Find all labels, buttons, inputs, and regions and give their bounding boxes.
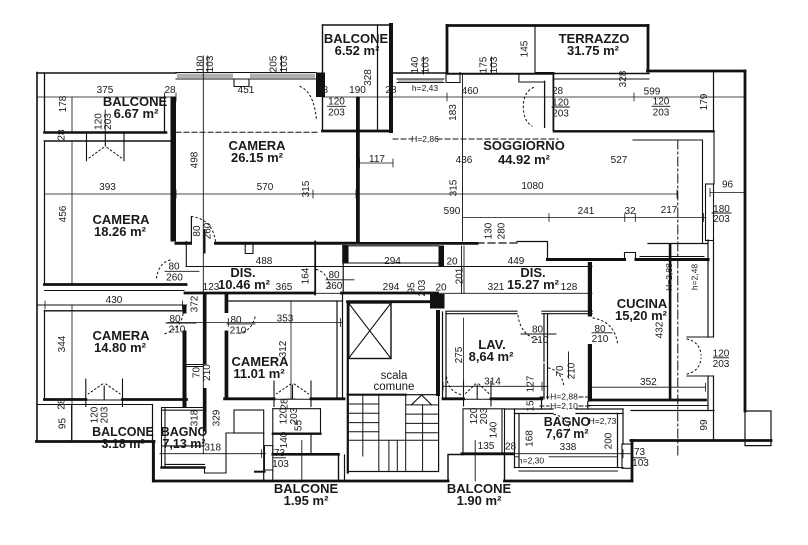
svg-text:15,20 m²: 15,20 m² (615, 308, 668, 323)
svg-text:15.27 m²: 15.27 m² (507, 277, 560, 292)
corridor walls into bagno (542, 400, 588, 409)
dim line 430 ticks (37, 301, 183, 309)
bagno 7.67 east wall (618, 409, 624, 468)
balcone 1.90 bottom outer wall (462, 452, 513, 455)
cucina top wall notch (625, 253, 636, 260)
dis vestibule wall (314, 242, 316, 295)
svg-text:28: 28 (164, 85, 176, 96)
svg-text:120: 120 (328, 97, 345, 108)
dis inner door arc (317, 270, 331, 291)
east wall below pillar (708, 240, 714, 441)
svg-text:130: 130 (484, 222, 495, 239)
svg-text:103: 103 (279, 55, 290, 72)
svg-text:96: 96 (722, 180, 734, 191)
balcone 6.52 right wall thick (389, 25, 393, 131)
wall link A-B (187, 365, 204, 367)
svg-text:375: 375 (97, 85, 114, 96)
svg-text:314: 314 (484, 377, 501, 388)
balcone 6.52 bottom wall (323, 130, 392, 133)
dim line 117 (360, 159, 394, 167)
stairs right flight treads (406, 405, 439, 433)
svg-text:200: 200 (604, 432, 615, 449)
corridor 70 door arc (549, 368, 565, 386)
svg-text:h=2,48: h=2,48 (690, 264, 700, 291)
svg-text:217: 217 (661, 205, 678, 216)
svg-text:449: 449 (508, 256, 525, 267)
svg-text:260: 260 (166, 273, 183, 284)
svg-text:SOGGIORNO: SOGGIORNO (483, 138, 565, 153)
svg-text:103: 103 (489, 56, 500, 73)
stairs flight edges (363, 395, 406, 472)
dim line 314 lav (443, 382, 548, 390)
svg-text:140: 140 (489, 421, 500, 438)
wall B corridor 329 (203, 294, 207, 365)
svg-text:h=2,43: h=2,43 (412, 83, 439, 93)
balcone 6.67 left wall (44, 73, 46, 133)
dim line 344/456 left (71, 97, 73, 441)
camera 26.15 door arc (191, 217, 215, 242)
svg-text:570: 570 (257, 182, 274, 193)
niche 99 line (631, 410, 714, 412)
bottom-right outer wall (631, 439, 771, 442)
svg-text:488: 488 (256, 256, 273, 267)
svg-text:127: 127 (526, 375, 537, 392)
svg-text:210: 210 (532, 335, 549, 346)
svg-text:7,13 m²: 7,13 m² (162, 437, 205, 451)
dim line 318 bagno713 (160, 450, 266, 458)
svg-text:203: 203 (328, 108, 345, 119)
svg-text:372: 372 (190, 295, 201, 312)
svg-text:145: 145 (520, 40, 531, 57)
svg-text:203: 203 (103, 113, 114, 130)
svg-text:95: 95 (407, 282, 418, 294)
camera 14.80 top wall (45, 310, 184, 312)
svg-text:315: 315 (449, 179, 460, 196)
fraction bars small dims (328, 105, 346, 107)
svg-text:353: 353 (277, 314, 294, 325)
elevator shaft (349, 303, 391, 359)
svg-text:344: 344 (57, 335, 68, 352)
svg-text:432: 432 (655, 321, 666, 338)
niche step at terrazzo left (446, 73, 460, 83)
svg-text:210: 210 (592, 334, 609, 345)
bagno 7.67 door arc (554, 415, 570, 432)
soggiorno north wall (447, 73, 553, 75)
window notch camera 26.15 (234, 79, 249, 87)
long dim line x203 (202, 56, 204, 454)
svg-text:80: 80 (328, 270, 340, 281)
svg-text:498: 498 (190, 151, 201, 168)
balcone 3.18 top line (37, 404, 153, 406)
niche 294 outline (348, 246, 439, 263)
balcone 1.95 lower box (273, 409, 311, 454)
niche west slab (342, 245, 347, 264)
svg-text:18.26 m²: 18.26 m² (94, 224, 147, 239)
outer wall top-left balcone 6.67 (37, 72, 176, 74)
lav bottom wall (443, 397, 542, 400)
camera 18.26 left inner wall (44, 141, 46, 285)
cucina east french window (687, 337, 714, 376)
small shaft boxes (265, 446, 273, 470)
terrazzo inner line (535, 26, 554, 73)
svg-text:80: 80 (532, 325, 544, 336)
stairs winder verticals (389, 405, 423, 472)
svg-text:6.67 m²: 6.67 m² (114, 106, 159, 121)
camera 11.01 bottom wall (225, 397, 344, 400)
svg-text:73: 73 (274, 448, 286, 459)
svg-text:318: 318 (204, 443, 221, 454)
camera 11.01 right wall (337, 294, 343, 399)
svg-text:7,67 m²: 7,67 m² (545, 427, 588, 441)
cucina east wall (669, 244, 672, 401)
balcone 6.67 bottom wall (45, 131, 167, 134)
svg-text:H=2,73: H=2,73 (589, 416, 617, 426)
balcone 3.18 divider (71, 405, 73, 442)
svg-text:280: 280 (497, 222, 508, 239)
svg-text:120: 120 (713, 349, 730, 360)
scala east wall (430, 294, 445, 309)
soggiorno south wall dashed part (477, 242, 517, 244)
dim line y97 (37, 96, 745, 98)
soggiorno-terrazzo wall (554, 130, 714, 132)
svg-text:294: 294 (383, 282, 400, 293)
svg-text:103: 103 (205, 55, 216, 72)
bagno 7.13 walls (162, 408, 205, 468)
svg-text:201: 201 (455, 267, 466, 284)
wall right of bagno 7.13 (263, 433, 265, 481)
lav-balcone 1.90 french door (464, 381, 492, 406)
svg-text:203: 203 (713, 214, 730, 225)
niche 294 right slab (439, 246, 445, 267)
svg-text:80: 80 (169, 314, 181, 325)
svg-text:203: 203 (713, 359, 730, 370)
cucina bottom wall (591, 399, 706, 402)
svg-text:120: 120 (552, 98, 569, 109)
svg-text:14.80 m²: 14.80 m² (94, 340, 147, 355)
svg-text:28: 28 (505, 442, 517, 453)
closet h248 line (640, 256, 704, 258)
svg-text:168: 168 (525, 430, 536, 447)
svg-text:393: 393 (99, 182, 116, 193)
camera 11.01 door arc left (238, 317, 255, 334)
svg-text:117: 117 (369, 154, 385, 165)
pillar east (706, 184, 714, 241)
scala floor edge thick (348, 394, 406, 396)
cucina door arc (593, 318, 618, 343)
balcone 6.67 right edge (164, 97, 166, 133)
soggiorno east inner lines (633, 132, 714, 244)
svg-text:44.92 m²: 44.92 m² (498, 152, 551, 167)
camera 26.15 dashed ceiling line (176, 131, 317, 133)
balcone 3.18 bottom outer wall (37, 440, 155, 443)
terrazzo right wall (647, 26, 650, 72)
bagno 7.67 west wall (515, 409, 520, 468)
svg-text:28: 28 (552, 86, 564, 97)
svg-text:203: 203 (100, 406, 111, 423)
corridor bottom wall west (185, 292, 314, 295)
svg-text:70: 70 (555, 365, 566, 377)
corridor top line dis 10.46 / 488 (186, 266, 592, 268)
svg-text:95: 95 (58, 418, 69, 430)
camera 14.80 left inner wall (44, 311, 46, 400)
svg-text:205: 205 (269, 55, 280, 72)
camera 26.15 door leaf (190, 217, 192, 245)
svg-text:294: 294 (384, 256, 401, 267)
dim ticks y97 (37, 93, 745, 101)
svg-text:11.01 m²: 11.01 m² (233, 366, 285, 381)
camera 14.80 top dim line 430 (37, 304, 187, 306)
camera 18.26 bottom wall (45, 283, 187, 286)
terrazzo top wall (447, 24, 648, 27)
dashed h230 bagno (515, 456, 618, 458)
camera 26.15 north window band (176, 73, 316, 80)
corridor bottom thin line (206, 292, 592, 294)
svg-text:6.52 m²: 6.52 m² (335, 43, 380, 58)
balcone 1.95 pointer line (301, 441, 303, 481)
top window dim bars vertical (208, 56, 492, 74)
svg-text:103: 103 (421, 56, 432, 73)
camera 14.80 right wall slab (183, 305, 187, 314)
svg-text:80: 80 (192, 225, 203, 237)
step down right of balcone 1.90 (504, 454, 506, 481)
camera 18.26 / 26.15 dividing wall slab (171, 97, 177, 242)
balcone 6.67 door jambs (87, 133, 125, 161)
svg-text:55: 55 (294, 420, 305, 432)
stairs left flight treads (348, 404, 379, 432)
svg-text:99: 99 (699, 419, 710, 431)
svg-text:318: 318 (190, 409, 201, 426)
svg-text:128: 128 (561, 282, 578, 293)
terrazzo parapet east (713, 72, 715, 132)
corridor bottom wall over camera 11.01 (342, 292, 438, 295)
scala top wall (348, 300, 443, 303)
svg-text:120: 120 (279, 407, 290, 424)
svg-text:31.75 m²: 31.75 m² (567, 43, 620, 58)
svg-text:315: 315 (301, 180, 312, 197)
box right of corridor (234, 410, 264, 433)
partition 20 lines (462, 246, 465, 293)
stairs winder line (348, 439, 439, 441)
svg-text:210: 210 (230, 325, 247, 336)
terrazzo left wall (446, 26, 449, 74)
camera 26.15 east wall slab (356, 97, 360, 244)
svg-text:28: 28 (317, 85, 329, 96)
svg-text:103: 103 (272, 459, 289, 470)
svg-text:312: 312 (278, 340, 289, 357)
bagno 7.67 top wall (505, 409, 623, 414)
camera 14.80 bottom wall (45, 398, 187, 401)
camera 11.01 top inner line (228, 300, 342, 302)
lav west wall slab (443, 312, 447, 399)
lav door arc (518, 316, 541, 341)
svg-text:328: 328 (618, 70, 629, 87)
svg-text:103: 103 (632, 458, 649, 469)
svg-text:178: 178 (58, 95, 69, 112)
svg-text:80: 80 (230, 315, 242, 326)
dim line 312 (287, 301, 295, 399)
svg-text:329: 329 (212, 409, 223, 426)
outer wall left (36, 73, 38, 442)
niche top h243 (393, 72, 447, 74)
balcone 1.90 box (463, 409, 505, 454)
svg-text:1.95 m²: 1.95 m² (284, 493, 329, 508)
svg-text:32: 32 (624, 206, 636, 217)
soggiorno south-east thin wall (517, 242, 708, 259)
dim line 352 cucina (591, 383, 705, 391)
svg-text:203: 203 (653, 108, 670, 119)
svg-text:210: 210 (169, 325, 186, 336)
svg-text:203: 203 (552, 109, 569, 120)
balcone 6.52 door arc (300, 87, 317, 121)
svg-text:8,64 m²: 8,64 m² (469, 349, 514, 364)
balcone 1.95 parapet (273, 453, 339, 456)
svg-text:140: 140 (410, 56, 421, 73)
svg-text:comune: comune (374, 381, 415, 393)
svg-text:20: 20 (446, 257, 458, 268)
svg-text:451: 451 (238, 85, 255, 96)
long dim line x462 (462, 74, 464, 241)
svg-text:241: 241 (578, 206, 595, 217)
svg-text:H=2,10: H=2,10 (550, 401, 578, 411)
stairs direction arrow (412, 395, 432, 405)
svg-text:123: 123 (203, 282, 220, 293)
camera 26.15 door bar (204, 229, 206, 254)
wall line below camera 18.26 (45, 290, 185, 292)
camera 14.80 french door (86, 379, 123, 407)
wall pier at camera 26.15 NE (316, 73, 325, 98)
h=2,43 niche window (397, 79, 444, 83)
svg-text:210: 210 (567, 362, 578, 379)
dashed h lines corridor (540, 396, 592, 398)
svg-text:456: 456 (58, 205, 69, 222)
dim line 96 right (710, 189, 745, 197)
svg-text:28: 28 (57, 129, 68, 141)
svg-text:338: 338 (560, 442, 577, 453)
svg-text:73: 73 (634, 447, 646, 458)
step up right of stairs (448, 455, 463, 482)
svg-text:321: 321 (488, 282, 505, 293)
lav east wall (544, 314, 548, 399)
camera 14.80 door arc top (162, 314, 183, 335)
camera 18.26 top wall (45, 140, 171, 142)
svg-text:10.46 m²: 10.46 m² (218, 277, 271, 292)
svg-text:20: 20 (435, 283, 447, 294)
pillar square bottom right (745, 411, 771, 446)
dim line 275 lav (463, 318, 465, 386)
svg-text:183: 183 (448, 104, 459, 121)
svg-text:210: 210 (202, 364, 213, 381)
bottom outer wall under stairs (154, 480, 449, 483)
stairs outline (348, 395, 439, 472)
camera 11.01 french door (274, 381, 311, 407)
svg-text:H=2,88: H=2,88 (550, 392, 578, 402)
svg-text:527: 527 (611, 155, 628, 166)
dim line y194 (45, 193, 678, 195)
svg-text:15: 15 (526, 400, 537, 412)
bagno 7.67 niche (622, 444, 632, 468)
svg-text:460: 460 (462, 86, 479, 97)
balcone 6.52 top wall (323, 24, 392, 26)
dis 10.46 left wall line (185, 242, 187, 267)
svg-text:28: 28 (57, 398, 68, 410)
svg-text:175: 175 (479, 56, 490, 73)
cucina west wall slab (588, 262, 592, 317)
svg-text:28: 28 (385, 85, 397, 96)
bagno 7.67 bottom (515, 468, 624, 472)
svg-text:164: 164 (301, 267, 312, 284)
svg-text:120: 120 (653, 97, 670, 108)
camera 26.15 bottom wall (176, 242, 356, 245)
svg-text:140: 140 (279, 431, 290, 448)
svg-text:430: 430 (106, 295, 123, 306)
bottom outer wall under bagno 7.67 (505, 480, 633, 483)
cucina top wall (548, 258, 709, 261)
svg-text:26.15 m²: 26.15 m² (231, 150, 284, 165)
svg-text:260: 260 (203, 222, 214, 239)
section dash-dot line (677, 140, 679, 455)
dim line 353 (168, 319, 342, 327)
balcone 6.52 left wall (322, 25, 324, 131)
balcone 1.95 upper box (273, 409, 321, 433)
soggiorno south wall (359, 242, 477, 245)
svg-text:365: 365 (276, 282, 293, 293)
svg-text:275: 275 (454, 346, 465, 363)
svg-text:70: 70 (192, 367, 203, 379)
terrazzo door arc (523, 88, 533, 127)
soggiorno dashed ceiling line H=2,86 (393, 138, 558, 140)
svg-text:1080: 1080 (521, 181, 544, 192)
svg-text:179: 179 (699, 93, 710, 110)
svg-text:328: 328 (363, 69, 374, 86)
svg-text:260: 260 (326, 281, 343, 292)
lav top wall (446, 311, 592, 314)
svg-text:H=2,86: H=2,86 (411, 134, 439, 144)
svg-text:1.90 m²: 1.90 m² (457, 493, 502, 508)
camera 11.01 outer top wall slab (225, 292, 229, 313)
svg-text:3.18 m²: 3.18 m² (101, 437, 144, 451)
svg-text:352: 352 (640, 377, 657, 388)
svg-text:135: 135 (478, 441, 495, 452)
svg-text:590: 590 (444, 206, 461, 217)
outer wall right (744, 71, 747, 411)
svg-text:h=2,30: h=2,30 (518, 456, 545, 466)
dim line y217.5 (463, 217, 707, 219)
svg-text:H=2,88: H=2,88 (664, 263, 674, 291)
outer wall top right (648, 70, 746, 73)
svg-text:80: 80 (168, 262, 180, 273)
balcone 3.18 right wall (152, 405, 154, 482)
scala west wall (347, 302, 349, 473)
wall stub soggiorno/terrazzo door (544, 81, 546, 127)
balcone 6.67 door arcs (89, 148, 122, 159)
soggiorno north window lines (554, 78, 649, 80)
outer wall step at bagno right (631, 441, 634, 482)
outer wall step down left (152, 442, 155, 482)
svg-text:203: 203 (417, 279, 428, 296)
dim line 338 bagno767 (514, 450, 631, 458)
camera 18.26 door arc (156, 260, 170, 281)
balcone 1.90 pointer (474, 441, 476, 481)
svg-text:436: 436 (456, 155, 473, 166)
chimney notch (245, 245, 253, 254)
